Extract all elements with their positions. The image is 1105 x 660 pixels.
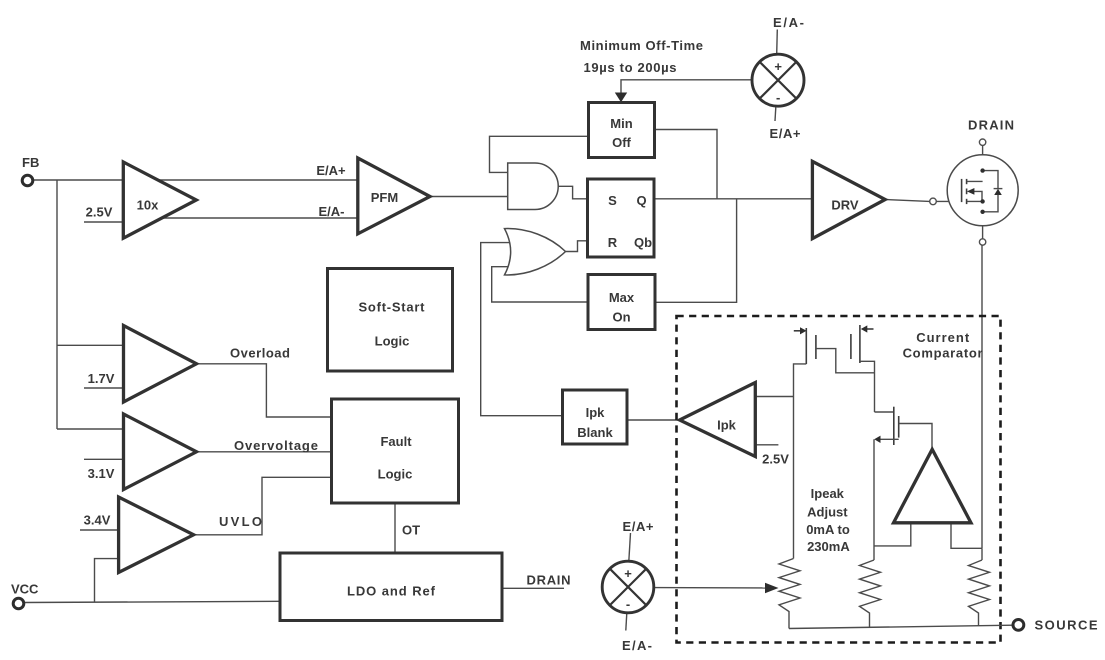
svg-text:On: On — [612, 310, 630, 325]
MOSFET circle — [947, 155, 1018, 226]
wire Max On right side up to Q line — [656, 199, 737, 302]
svg-text:Fault: Fault — [380, 434, 412, 449]
svg-text:2.5V: 2.5V — [86, 205, 113, 220]
wire Min Off output left to AND top input — [490, 136, 589, 172]
svg-text:1.7V: 1.7V — [88, 371, 115, 386]
svg-text:Minimum Off-Time: Minimum Off-Time — [580, 38, 703, 53]
transistor Q1 source lead down to R1 — [794, 364, 807, 559]
MOSFET channel segments — [966, 179, 968, 184]
svg-text:Off: Off — [612, 135, 631, 150]
wire Q output to DRV — [654, 198, 812, 200]
wire overload output to fault logic — [197, 364, 332, 417]
svg-text:Q: Q — [636, 193, 646, 208]
body diode — [983, 171, 998, 189]
node 3.4V ref stub — [80, 529, 119, 531]
svg-text:DRAIN: DRAIN — [968, 118, 1014, 133]
svg-text:Overvoltage: Overvoltage — [234, 438, 318, 453]
transistor Q1 channel bar — [805, 328, 807, 364]
svg-text:Max: Max — [609, 290, 635, 305]
svg-text:Overload: Overload — [230, 346, 290, 361]
wire FB to 10x amp — [33, 179, 160, 181]
MOSFET source lead — [967, 200, 983, 202]
svg-text:Ipeak: Ipeak — [811, 486, 845, 501]
transistor Q3 channel bar — [898, 416, 900, 438]
block Fault Logic — [332, 399, 459, 503]
svg-text:-: - — [626, 597, 630, 612]
MOSFET drain lead — [967, 180, 983, 182]
svg-text:0mA to: 0mA to — [806, 522, 850, 537]
wire gate tie of mirror — [816, 349, 875, 373]
transistor Q3 drain lead to comparator — [899, 424, 932, 450]
wire E/A+ from 10x to PFM — [140, 179, 358, 181]
comparator (current) triangle — [894, 449, 972, 523]
wire comparator left input — [874, 523, 911, 546]
wire Ipeak adjust arrow from summing node — [654, 587, 767, 589]
node 2.5V ref stub (Ipk) — [754, 444, 778, 446]
driver DRV — [812, 161, 885, 238]
comparator Ipk — [680, 383, 756, 457]
terminal SOURCE — [1013, 620, 1024, 631]
wire comparator right input — [951, 523, 982, 548]
svg-text:E/A-: E/A- — [773, 15, 804, 30]
wire bus to overload comparator top input — [57, 344, 124, 346]
comparator Overvoltage — [124, 414, 197, 490]
wire Min Off right side down to Q line — [655, 130, 717, 199]
svg-text:Ipk: Ipk — [586, 405, 606, 420]
transistor Q2 gate bar — [850, 334, 852, 359]
svg-text:+: + — [624, 566, 632, 581]
terminal VCC — [13, 598, 24, 609]
summing node (bottom) — [602, 561, 654, 613]
transistor Q3 source lead with arrow — [880, 438, 899, 440]
svg-text:E/A+: E/A+ — [770, 126, 801, 141]
wire bus to overvoltage comparator top input — [57, 428, 124, 430]
block Ipk Blank — [563, 390, 628, 444]
wire drain vertical through MOSFET — [982, 145, 984, 238]
svg-text:OT: OT — [402, 523, 420, 538]
node 1.7V ref stub — [84, 387, 124, 389]
svg-text:Blank: Blank — [577, 425, 613, 440]
svg-text:3.1V: 3.1V — [88, 466, 115, 481]
wire FB bus vertical down to comparators — [56, 180, 58, 429]
svg-text:Ipk: Ipk — [717, 418, 737, 433]
svg-text:Min: Min — [610, 116, 632, 131]
svg-text:VCC: VCC — [11, 582, 39, 597]
summing node leads — [776, 30, 779, 55]
node 2.5V ref stub for 10x amp — [84, 221, 124, 223]
svg-text:Adjust: Adjust — [807, 505, 848, 520]
transistor Q3 gate bar — [893, 407, 895, 445]
svg-text:2.5V: 2.5V — [762, 452, 789, 467]
terminal FB — [22, 175, 33, 186]
wire OT from fault logic to LDO — [394, 503, 396, 553]
svg-text:DRAIN: DRAIN — [527, 573, 571, 588]
svg-text:230mA: 230mA — [807, 539, 850, 554]
svg-text:Comparator: Comparator — [903, 346, 983, 361]
wire AND output to S input — [558, 186, 588, 199]
wire source rail — [789, 625, 1013, 628]
svg-text:S: S — [608, 193, 617, 208]
wire VCC branch up to UVLO input — [95, 559, 120, 602]
wire DRV output to MOSFET gate — [885, 200, 930, 202]
block LDO and Ref — [280, 553, 502, 621]
transistor Q2 channel bar — [859, 325, 861, 363]
wire PFM output to AND gate — [430, 196, 508, 198]
svg-text:LDO and Ref: LDO and Ref — [347, 584, 436, 599]
block Soft-Start Logic — [328, 269, 453, 372]
comparator Overload — [124, 326, 197, 403]
terminal drain top open circle — [979, 139, 985, 145]
MOSFET body lead with arrow — [972, 191, 982, 201]
svg-text:-: - — [776, 90, 780, 105]
resistor R3 — [969, 560, 990, 626]
block Max On — [588, 275, 655, 330]
transistor Q2 source lead — [860, 361, 875, 412]
OR gate — [505, 229, 566, 275]
MOSFET gate bar — [961, 179, 963, 202]
junction dots — [980, 168, 984, 172]
block Min Off — [589, 103, 655, 158]
svg-text:E/A+: E/A+ — [623, 519, 654, 534]
comparator PFM — [358, 158, 430, 234]
terminal drain bottom open circle — [979, 239, 985, 245]
svg-text:DRV: DRV — [831, 198, 859, 213]
svg-text:Soft-Start: Soft-Start — [359, 300, 426, 315]
svg-text:Qb: Qb — [634, 235, 652, 250]
summing node (bottom) leads — [629, 533, 631, 562]
wire OR top input from Ipk Blank — [481, 243, 563, 416]
svg-text:Current: Current — [916, 330, 970, 345]
wire Ipk Blank to Ipk comparator — [627, 419, 680, 421]
svg-text:+: + — [774, 59, 782, 74]
svg-text:FB: FB — [22, 155, 39, 170]
wire VCC to LDO — [24, 601, 280, 602]
wire UVLO output to fault logic — [194, 477, 332, 535]
svg-text:3.4V: 3.4V — [84, 513, 111, 528]
wire Ipk comparator sense input — [754, 396, 794, 398]
svg-text:SOURCE: SOURCE — [1035, 618, 1098, 633]
transistor Q1 gate bar — [815, 335, 817, 359]
node 3.1V ref stub — [84, 458, 124, 460]
AND gate — [508, 163, 559, 210]
SR latch — [588, 179, 655, 257]
wire OR output to R input — [564, 241, 588, 252]
svg-text:R: R — [608, 235, 618, 250]
wire to Q3 gate — [875, 411, 894, 413]
wire LDO output DRAIN — [502, 587, 564, 589]
svg-text:Logic: Logic — [375, 334, 410, 349]
wire overvoltage output to fault logic — [197, 451, 332, 453]
resistor R2 — [860, 560, 881, 628]
wire from summing node to Min Off with arrow — [621, 80, 752, 94]
svg-text:Logic: Logic — [378, 467, 413, 482]
wire E/A- from 10x to PFM — [124, 217, 358, 219]
svg-text:PFM: PFM — [371, 190, 398, 205]
summing node (top) — [752, 54, 804, 106]
svg-text:E/A-: E/A- — [319, 204, 345, 219]
wire R3 top lead — [981, 548, 983, 560]
svg-text:E/A-: E/A- — [622, 638, 652, 653]
dashed box current comparator — [677, 316, 1001, 643]
wire Q3 source down to R2 — [873, 439, 875, 560]
arrowhead into Min Off — [615, 93, 627, 103]
svg-text:E/A+: E/A+ — [316, 163, 346, 178]
svg-text:10x: 10x — [137, 198, 159, 213]
wire from MOSFET source down to current comparator — [981, 245, 983, 548]
svg-text:19µs to 200µs: 19µs to 200µs — [584, 60, 677, 75]
wire Max On left output to OR bottom input — [492, 267, 588, 302]
amplifier 10x — [123, 162, 196, 238]
transistor Q2 right mirror arrow — [866, 328, 873, 330]
node DRV output open circle — [930, 198, 937, 205]
transistor Q1 left mirror arrow — [794, 330, 801, 332]
resistor R1 — [779, 559, 800, 629]
comparator UVLO — [119, 497, 194, 573]
